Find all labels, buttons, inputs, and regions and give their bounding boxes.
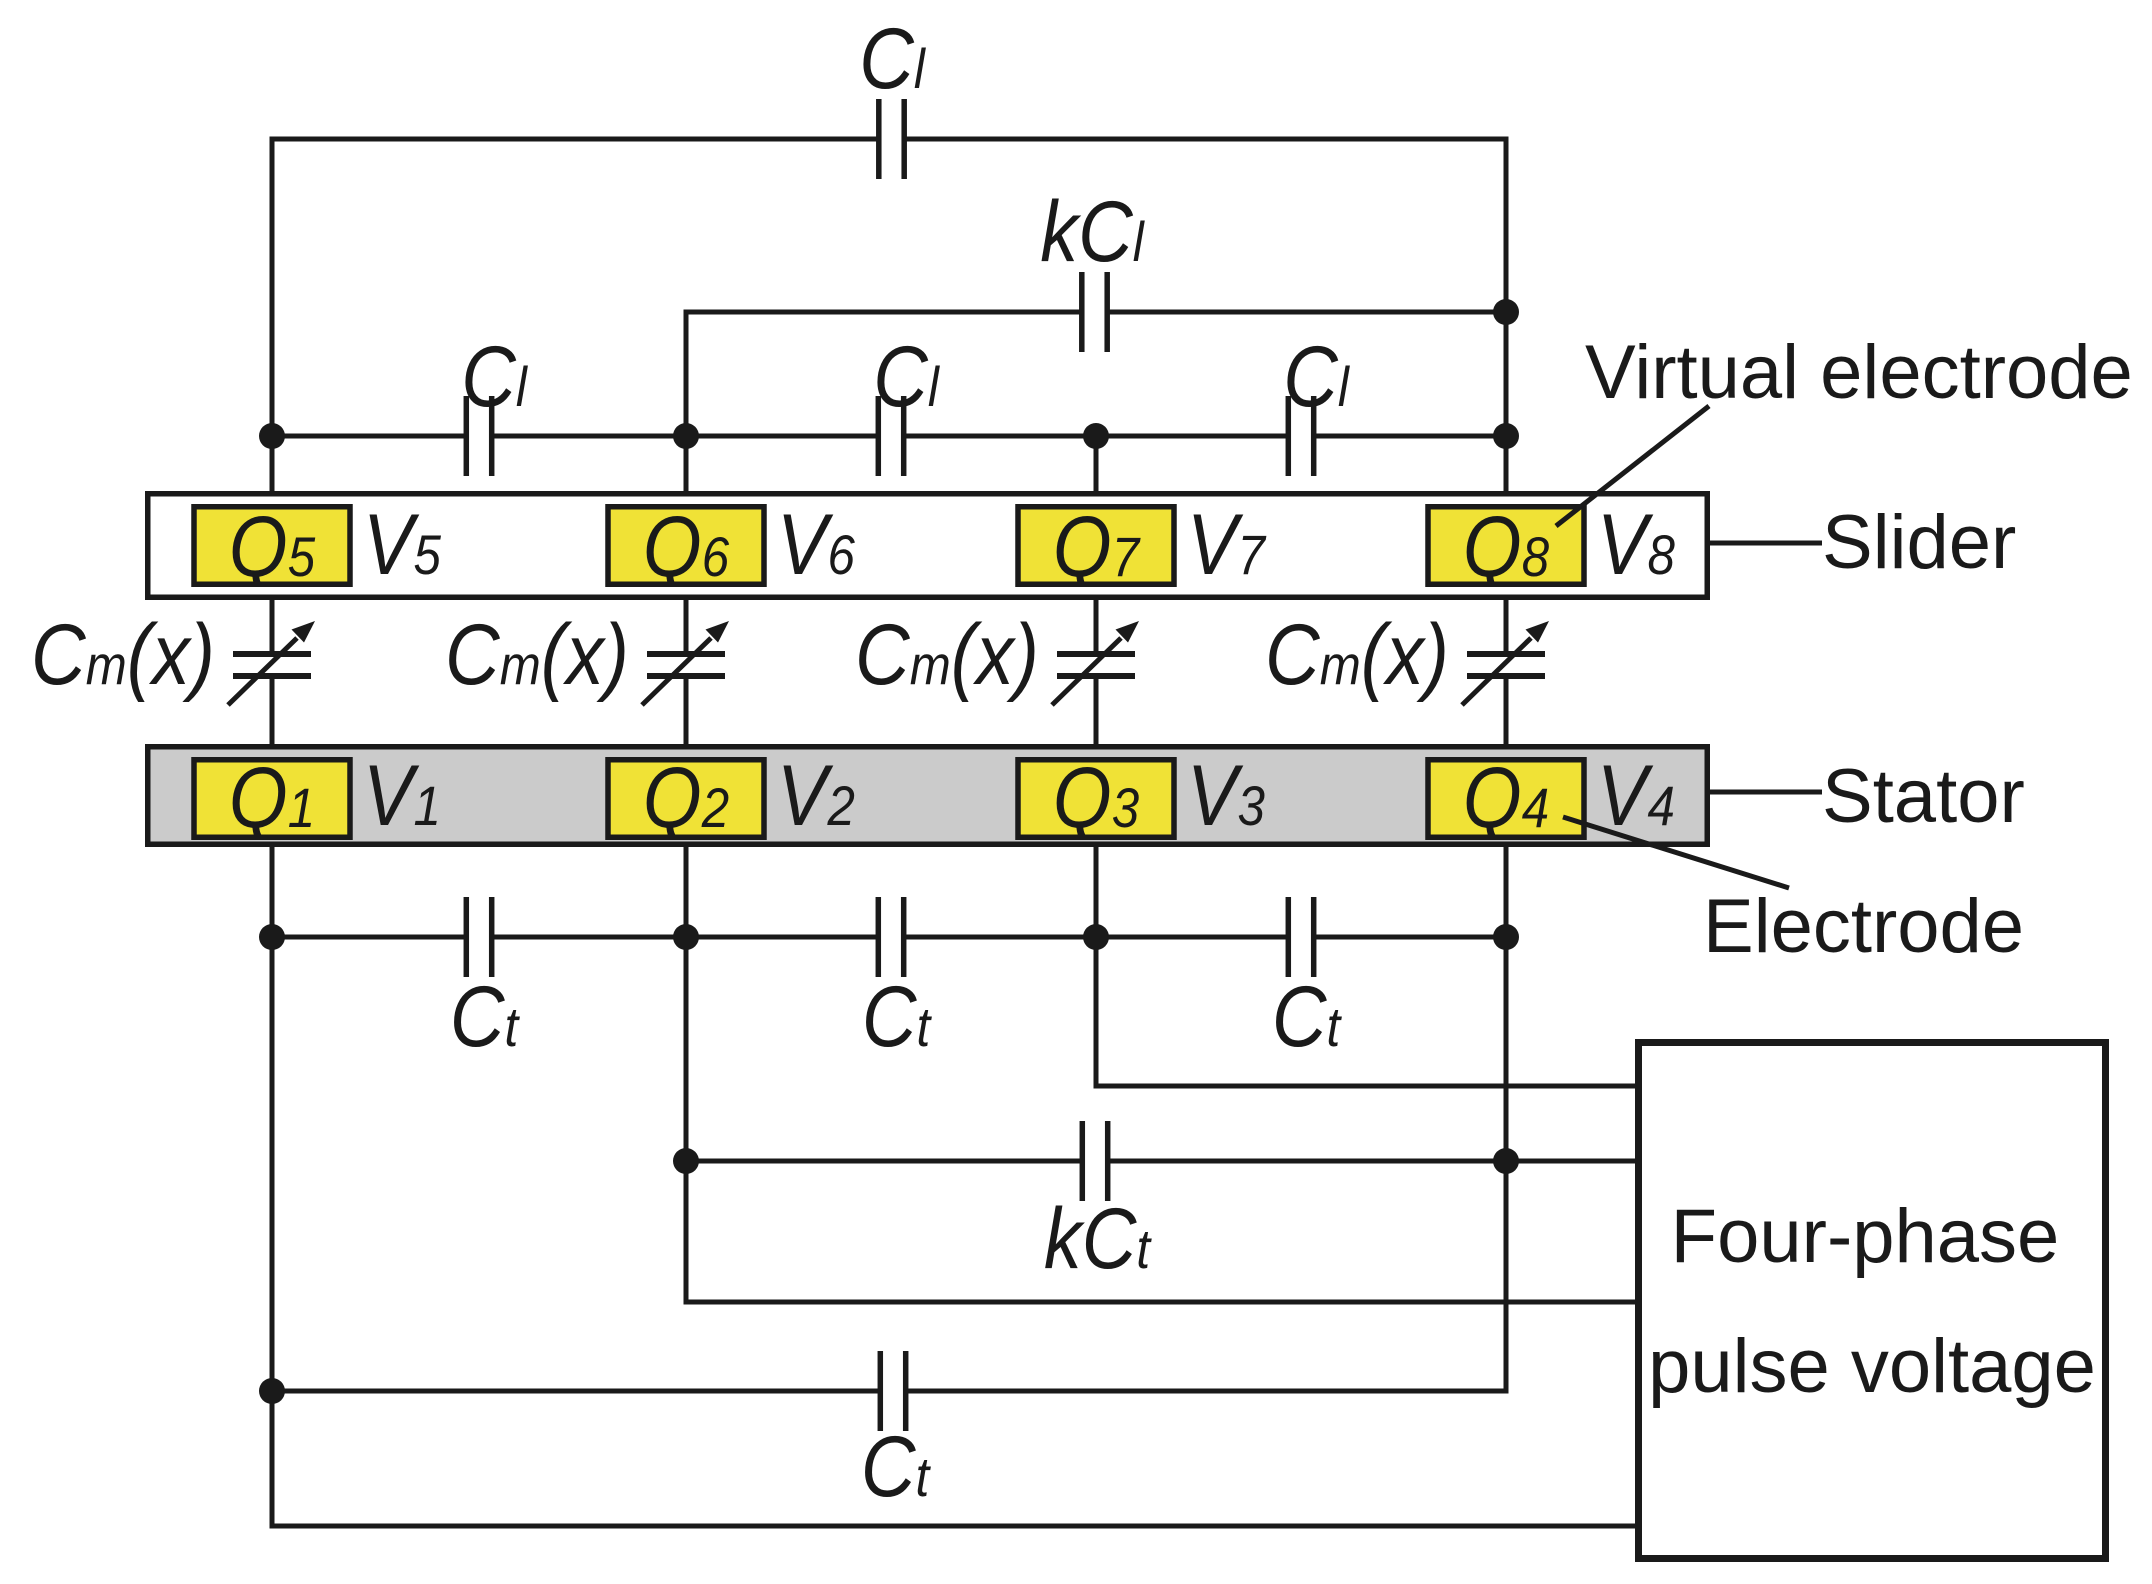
- svg-text:kCt: kCt: [1044, 1192, 1152, 1288]
- svg-text:Four-phase: Four-phase: [1671, 1194, 2060, 1279]
- svg-text:Stator: Stator: [1822, 754, 2025, 839]
- svg-text:Electrode: Electrode: [1703, 884, 2024, 969]
- svg-text:pulse voltage: pulse voltage: [1648, 1324, 2096, 1409]
- svg-text:Slider: Slider: [1822, 500, 2016, 585]
- svg-text:Virtual electrode: Virtual electrode: [1585, 330, 2133, 415]
- svg-text:kCl: kCl: [1040, 185, 1145, 281]
